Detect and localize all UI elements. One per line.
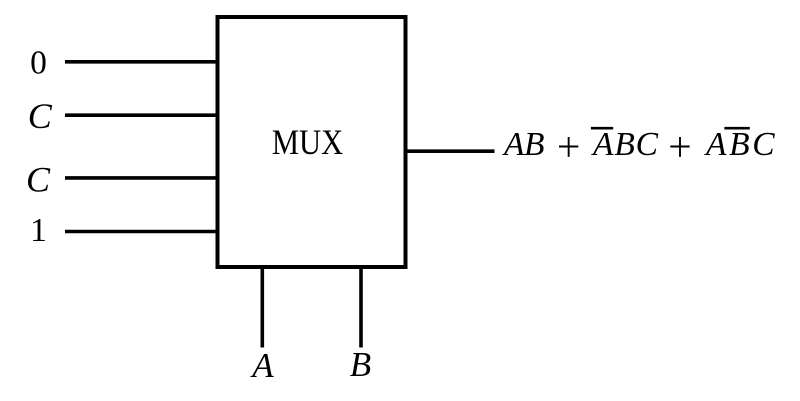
svg-text:C: C (26, 159, 51, 199)
svg-text:ABC: ABC (704, 126, 775, 163)
svg-text:1: 1 (30, 212, 47, 249)
svg-text:0: 0 (30, 45, 47, 82)
svg-text:MUX: MUX (272, 123, 343, 163)
svg-text:A: A (250, 346, 274, 385)
svg-text:ABC: ABC (591, 126, 659, 163)
svg-text:C: C (28, 96, 53, 136)
svg-text:AB: AB (502, 126, 545, 163)
svg-text:B: B (350, 345, 371, 384)
